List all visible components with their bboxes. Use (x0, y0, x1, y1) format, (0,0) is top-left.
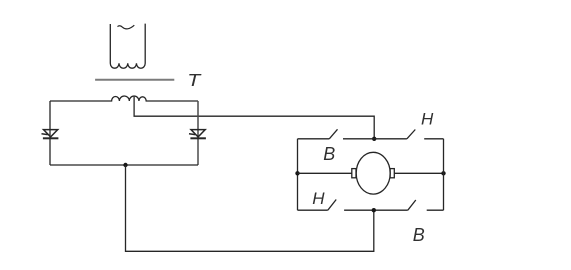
wire bottom return (126, 165, 374, 251)
svg-text:Н: Н (421, 109, 434, 128)
svg-text:В: В (413, 225, 425, 245)
wire center tap to bridge (134, 97, 374, 139)
wire motor right lead (394, 172, 443, 174)
switch B forward top-left (298, 129, 375, 139)
junction center tap at bridge top (372, 137, 376, 141)
ac source tilde (118, 25, 135, 29)
motor M armature with brushes (352, 152, 395, 194)
wire bridge right rail (443, 139, 445, 210)
switch H top-right (374, 130, 443, 139)
junction motor left (295, 171, 299, 175)
wire right rail (197, 101, 199, 165)
transformer T primary winding (110, 24, 145, 69)
junction motor right (441, 171, 445, 175)
thyristor VS2 (189, 130, 206, 139)
transformer T secondary winding (50, 96, 198, 101)
wire left rail (49, 101, 51, 165)
wire bridge left rail (297, 139, 299, 210)
switch H reverse bottom-left (298, 200, 374, 211)
transformer T core (95, 79, 174, 81)
svg-text:В: В (323, 144, 335, 164)
junction bridge bottom (372, 208, 376, 212)
thyristor VS1 (42, 130, 59, 139)
wire motor left lead (298, 172, 352, 174)
svg-text:T: T (187, 70, 202, 90)
wire bottom rail (50, 164, 198, 166)
junction bottom rail tap (123, 163, 127, 167)
svg-text:Н: Н (312, 189, 325, 208)
switch B bottom-right (374, 200, 444, 210)
